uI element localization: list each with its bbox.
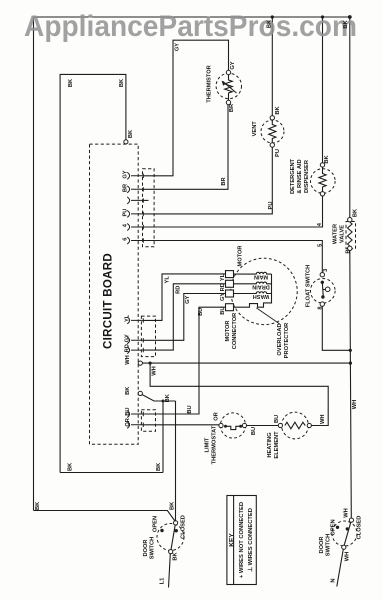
svg-text:YL: YL bbox=[220, 273, 226, 281]
svg-text:DOOR: DOOR bbox=[319, 536, 325, 553]
svg-text:BK: BK bbox=[156, 462, 162, 471]
connector block CN3 dashed bbox=[141, 410, 155, 432]
svg-text:BK: BK bbox=[165, 393, 171, 402]
svg-text:6: 6 bbox=[122, 238, 128, 241]
wire: WH tall right vertical below valve bbox=[350, 251, 352, 519]
vent solenoid zigzag bbox=[269, 120, 276, 143]
svg-text:THERMISTOR: THERMISTOR bbox=[207, 65, 213, 103]
svg-text:KEY: KEY bbox=[229, 533, 236, 547]
svg-text:BU: BU bbox=[251, 427, 257, 435]
svg-text:BK: BK bbox=[267, 19, 273, 28]
wire: detergent riser from top bus bbox=[322, 17, 324, 163]
wire: WH from board pin to right vertical bbox=[142, 362, 350, 364]
svg-text:BK: BK bbox=[173, 552, 179, 561]
svg-text:GY: GY bbox=[185, 295, 191, 303]
svg-text:CIRCUIT BOARD: CIRCUIT BOARD bbox=[103, 253, 115, 349]
svg-text:WH: WH bbox=[151, 366, 157, 375]
water valve dashed box bbox=[346, 222, 356, 249]
vent dashed circle bbox=[261, 120, 284, 143]
svg-text:VALVE: VALVE bbox=[340, 225, 346, 243]
svg-text:PU: PU bbox=[275, 149, 281, 157]
wire: OR board pin to limit thermostat bbox=[143, 424, 219, 426]
motor winding WASH coil bbox=[234, 292, 272, 294]
svg-text:AppliancePartsPros.com: AppliancePartsPros.com bbox=[24, 10, 357, 43]
svg-text:GY: GY bbox=[175, 43, 181, 51]
wire: pin4 to detergent dispenser bbox=[143, 196, 322, 227]
svg-text:DISPENSER: DISPENSER bbox=[304, 160, 310, 193]
wire: water valve riser from top bus bbox=[349, 17, 351, 218]
svg-text:MOTOR: MOTOR bbox=[225, 320, 231, 341]
svg-text:CLOSED: CLOSED bbox=[357, 516, 363, 540]
wire: WH branch down to heating element bbox=[150, 363, 328, 425]
board pin hooks group3 bbox=[127, 411, 143, 418]
wire: BK vertical x=175.5 to door switch bbox=[175, 401, 177, 521]
wire: float switch bottom to right vertical bbox=[322, 306, 350, 350]
svg-text:WH: WH bbox=[125, 355, 131, 364]
svg-text:BR: BR bbox=[221, 177, 227, 185]
svg-text:OPEN: OPEN bbox=[152, 516, 158, 532]
svg-text:CONNECTOR: CONNECTOR bbox=[232, 313, 238, 350]
svg-text:BK: BK bbox=[170, 501, 176, 510]
door switch N dashed circle bbox=[332, 521, 357, 546]
svg-text:RD: RD bbox=[175, 286, 181, 294]
svg-text:CLOSED: CLOSED bbox=[181, 515, 187, 539]
svg-text:RD: RD bbox=[220, 283, 226, 291]
svg-text:SWITCH: SWITCH bbox=[325, 534, 331, 556]
wire: stub pin3 bbox=[143, 199, 148, 201]
svg-text:BU: BU bbox=[198, 308, 204, 316]
svg-text:5: 5 bbox=[318, 244, 324, 247]
wire: BR thermistor bottom to board bbox=[143, 105, 228, 190]
svg-text:THERMOSTAT: THERMOSTAT bbox=[212, 425, 218, 464]
wire: vent riser from top bus bbox=[271, 17, 273, 116]
svg-text:DOOR: DOOR bbox=[143, 539, 149, 556]
svg-text:BK: BK bbox=[275, 106, 281, 115]
svg-text:MOTOR: MOTOR bbox=[238, 245, 244, 266]
svg-text:RD: RD bbox=[125, 344, 131, 352]
svg-text:OPEN: OPEN bbox=[330, 519, 336, 535]
terminal circles bbox=[124, 70, 354, 553]
svg-text:BR: BR bbox=[229, 104, 235, 112]
svg-text:BK: BK bbox=[128, 129, 134, 138]
svg-text:BU: BU bbox=[220, 306, 226, 314]
wire: GY from board pin up and over to thermistor bbox=[143, 40, 228, 176]
connector block CN1 dashed bbox=[143, 169, 155, 247]
wire: YL board pin to motor connector bbox=[143, 274, 225, 321]
water valve zigzag bbox=[347, 222, 352, 246]
svg-text:DETERGENT: DETERGENT bbox=[290, 158, 296, 194]
detergent dispenser zigzag bbox=[319, 167, 326, 192]
limit thermostat dashed circle bbox=[220, 413, 245, 438]
heating element dashed circle bbox=[282, 412, 309, 439]
svg-text:BR: BR bbox=[122, 184, 128, 192]
svg-text:GY: GY bbox=[220, 293, 226, 301]
wire: left frame BK L1 side bbox=[33, 17, 35, 511]
svg-text:BU: BU bbox=[274, 415, 280, 423]
board pin hooks group2 bbox=[127, 317, 143, 324]
svg-text:3: 3 bbox=[323, 269, 329, 272]
detergent dispenser dashed circle bbox=[311, 169, 336, 194]
svg-text:⊥ WIRES CONNECTED: ⊥ WIRES CONNECTED bbox=[247, 508, 254, 572]
thermistor dashed circle bbox=[216, 73, 241, 98]
wire: L1 lead below door switch bbox=[169, 554, 171, 588]
limit thermostat contact symbol bbox=[226, 426, 241, 429]
svg-text:WH: WH bbox=[344, 552, 350, 561]
board pin hooks group1 bbox=[127, 172, 143, 428]
svg-text:PROTECTOR: PROTECTOR bbox=[284, 323, 290, 359]
overload protector loop wiring bbox=[234, 274, 272, 307]
svg-text:VENT: VENT bbox=[252, 121, 258, 137]
svg-text:DRAIN: DRAIN bbox=[252, 283, 269, 289]
float switch actuator bbox=[323, 289, 326, 291]
svg-text:YL: YL bbox=[165, 276, 171, 284]
float switch blade bbox=[322, 282, 323, 297]
circuit board dashed outline bbox=[90, 144, 139, 444]
float switch dashed circle bbox=[311, 279, 336, 304]
svg-text:OVERLOAD: OVERLOAD bbox=[277, 323, 283, 355]
svg-text:WH: WH bbox=[352, 400, 358, 409]
wire: bottom BK run to door switch bbox=[34, 511, 176, 522]
svg-text:BU: BU bbox=[125, 407, 131, 415]
svg-text:PU: PU bbox=[268, 202, 274, 210]
door switch L1 dashed circle bbox=[157, 524, 184, 551]
wire: top BK bus y=17 bbox=[34, 16, 350, 18]
svg-text:BK: BK bbox=[119, 78, 125, 87]
svg-text:LIMIT: LIMIT bbox=[205, 437, 211, 452]
svg-text:BK: BK bbox=[343, 20, 349, 29]
svg-text:B: B bbox=[346, 249, 352, 253]
svg-text:L1: L1 bbox=[160, 578, 166, 585]
wire: BK pi-loop (x60 down, top, x126 to board) bbox=[60, 74, 126, 472]
svg-text:BU: BU bbox=[187, 405, 193, 413]
svg-text:GY: GY bbox=[230, 61, 236, 69]
wire: BU board pin to motor connector bbox=[143, 307, 225, 414]
thermistor diagonal line bbox=[223, 81, 237, 93]
overload protector leader line bbox=[256, 308, 279, 324]
svg-text:OR: OR bbox=[125, 418, 131, 427]
svg-text:MAIN: MAIN bbox=[254, 274, 268, 280]
motor dashed circle bbox=[231, 258, 297, 324]
wire: pin6 to float switch bbox=[143, 241, 322, 273]
door switch N contact dots bbox=[336, 526, 339, 529]
svg-text:8: 8 bbox=[318, 306, 324, 309]
svg-text:BK: BK bbox=[35, 501, 41, 510]
svg-text:ELEMENT: ELEMENT bbox=[274, 431, 280, 459]
wire: GY board pin to motor connector bbox=[143, 294, 225, 341]
svg-text:& RINSE AID: & RINSE AID bbox=[297, 159, 303, 193]
thermistor RT1 zigzag bbox=[225, 75, 233, 101]
wire: BK vertical x=163 bbox=[162, 401, 164, 473]
svg-text:GY: GY bbox=[122, 170, 128, 178]
wire: N lead below right door switch bbox=[337, 549, 344, 586]
svg-text:BK: BK bbox=[324, 155, 330, 164]
svg-text:BK: BK bbox=[125, 386, 131, 395]
svg-text:PU: PU bbox=[122, 209, 128, 217]
motor winding DRAIN coil bbox=[234, 282, 272, 284]
wire: BK horizontal y=472.5 bbox=[60, 472, 163, 474]
connector block CN2 dashed bbox=[141, 316, 155, 357]
motor winding MAIN coil bbox=[234, 272, 272, 293]
svg-text:GY: GY bbox=[125, 334, 131, 342]
wire: BU limit thermostat to heating element bbox=[247, 425, 279, 427]
svg-text:WATER: WATER bbox=[333, 224, 339, 244]
svg-text:SWITCH: SWITCH bbox=[149, 537, 155, 559]
svg-text:FLOAT SWITCH: FLOAT SWITCH bbox=[306, 265, 312, 308]
svg-text:OR: OR bbox=[214, 412, 220, 421]
wire: PU vent bottom to board bbox=[143, 147, 272, 214]
svg-text:YL: YL bbox=[125, 314, 131, 322]
float switch contact dots bbox=[321, 281, 324, 284]
svg-text:WASH: WASH bbox=[253, 293, 270, 299]
heating element zigzag bbox=[285, 422, 305, 429]
svg-text:BK: BK bbox=[67, 462, 73, 471]
svg-text:WH: WH bbox=[320, 415, 326, 424]
svg-text:HEATING: HEATING bbox=[267, 432, 273, 458]
KEY box bbox=[227, 496, 256, 585]
limit thermostat contact dots bbox=[224, 425, 227, 428]
svg-text:BK: BK bbox=[353, 208, 359, 217]
door switch N blade bbox=[344, 522, 351, 545]
svg-text:WH: WH bbox=[343, 508, 349, 517]
motor connector pin boxes bbox=[226, 271, 234, 311]
svg-text:BK: BK bbox=[68, 78, 74, 87]
door switch L1 blade bbox=[171, 525, 175, 550]
svg-text:N: N bbox=[331, 578, 337, 582]
wire: BK pin jog from board bbox=[142, 395, 175, 401]
wire: RD board pin to motor connector bbox=[143, 284, 225, 350]
door switch L1 contact dots bbox=[160, 529, 163, 532]
svg-text:+ WIRES NOT CONNECTED: + WIRES NOT CONNECTED bbox=[239, 502, 245, 578]
